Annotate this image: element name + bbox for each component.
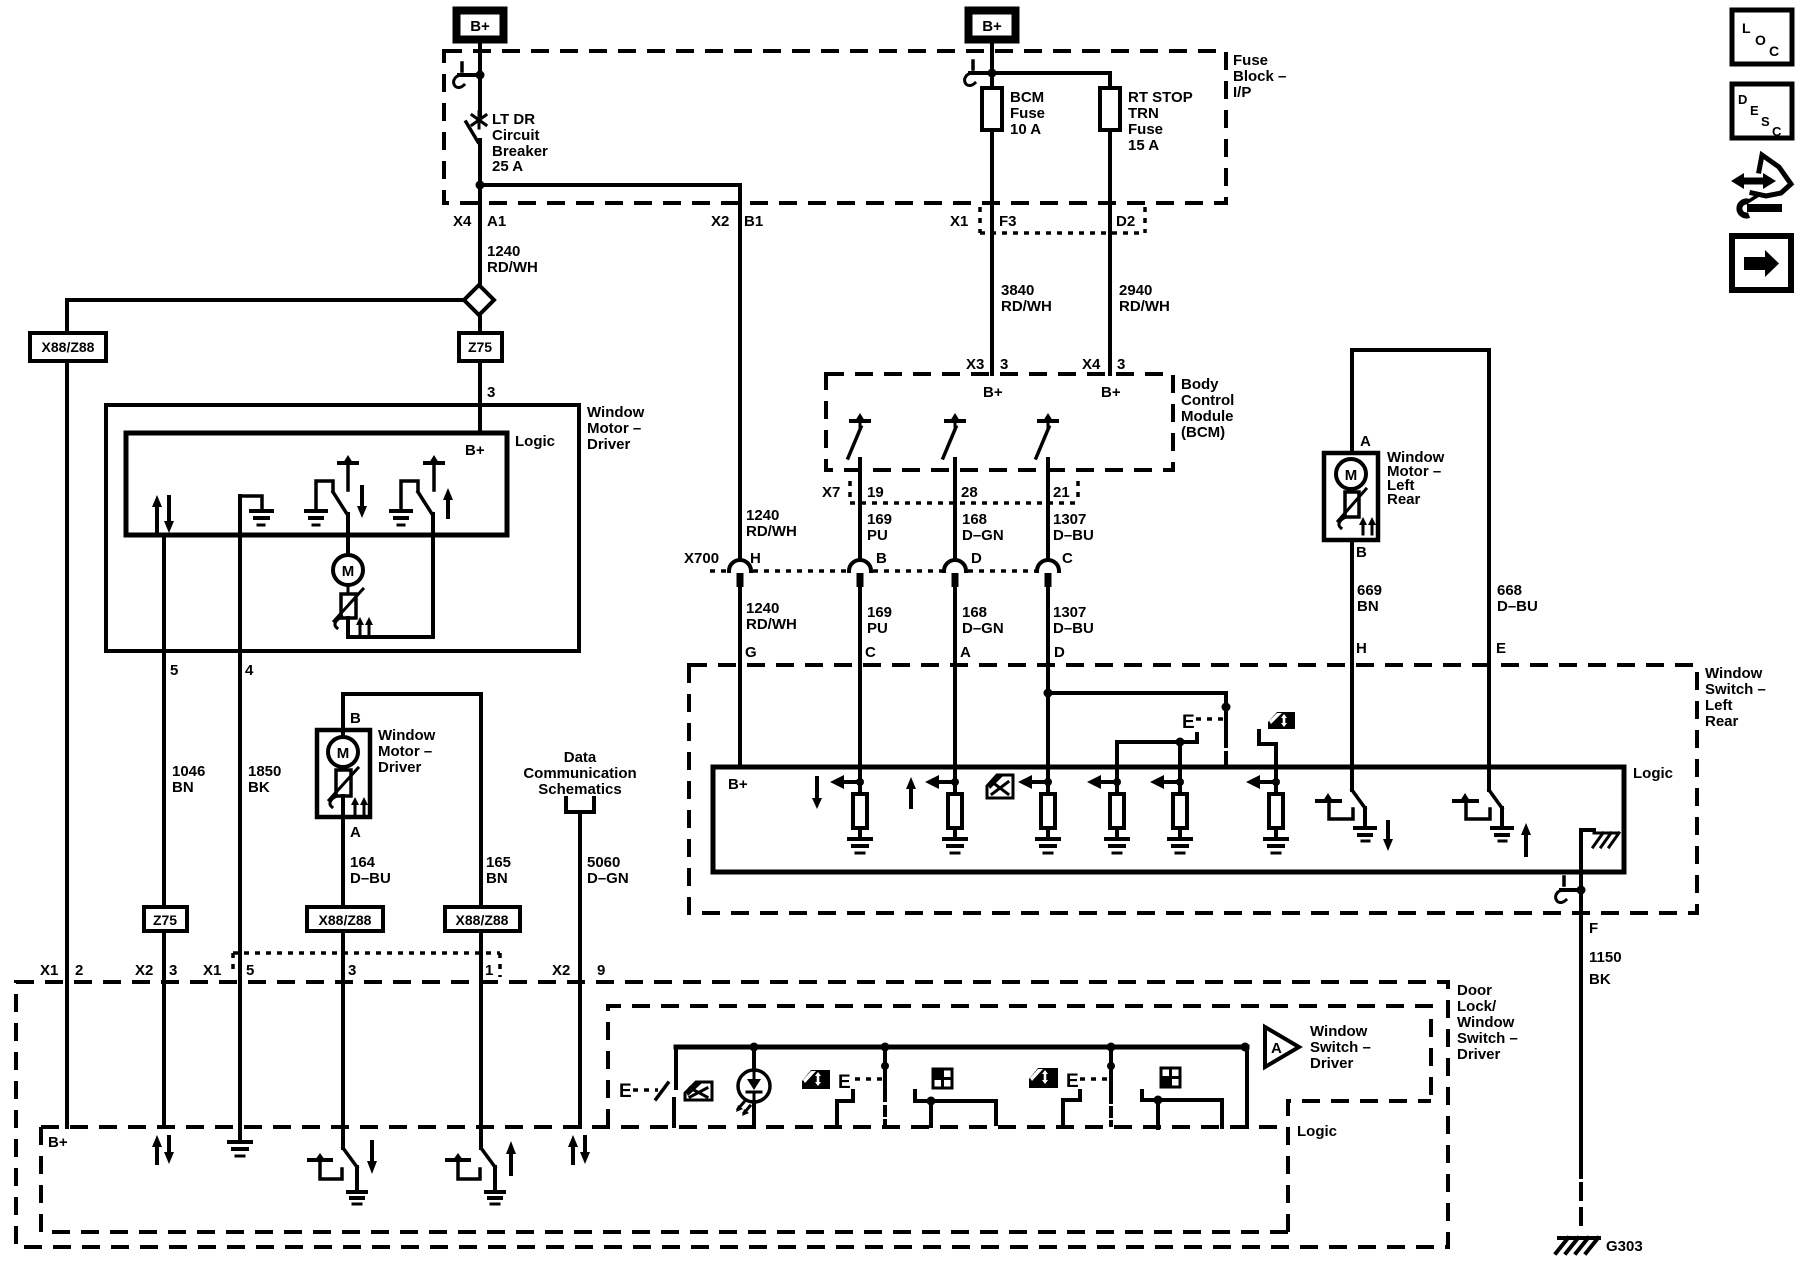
terminal hook at CB1 — [454, 63, 485, 88]
up/down arrows (door pin9) — [568, 1135, 590, 1164]
svg-text:H: H — [750, 550, 761, 567]
bus wire (switch row) — [676, 1045, 1247, 1050]
wire bus end down — [1241, 1043, 1250, 1128]
svg-text:Logic: Logic — [1297, 1123, 1337, 1140]
svg-text:Window: Window — [1457, 1014, 1515, 1031]
switch SW-up (door) — [481, 1148, 504, 1204]
up-up arrows M2 — [351, 797, 368, 814]
svg-text:RD/WH: RD/WH — [1001, 298, 1052, 315]
window motor driver M2 box — [317, 730, 370, 817]
actuator icon (door down) — [309, 1153, 342, 1179]
svg-text:B1: B1 — [744, 213, 763, 230]
svg-text:BK: BK — [248, 779, 270, 796]
pin labels H E — [1356, 640, 1506, 657]
junction node A1 — [476, 181, 485, 190]
switch SW-down (U1) — [306, 455, 357, 525]
label Window Motor Driver (M2) — [378, 727, 436, 776]
label Window Switch Left Rear — [1705, 665, 1766, 730]
X700 connector arc B — [849, 560, 871, 587]
E3 linkage dashed wire — [1107, 1043, 1116, 1126]
svg-text:X7: X7 — [822, 484, 840, 501]
svg-text:D–BU: D–BU — [350, 870, 391, 887]
switch contact L3 — [1063, 1091, 1080, 1127]
wire label 164 D-BU — [350, 854, 391, 887]
svg-text:Rear: Rear — [1387, 491, 1421, 508]
fuse BCM Fuse 10A — [982, 88, 1002, 130]
svg-text:669: 669 — [1357, 582, 1382, 599]
svg-text:E: E — [1496, 640, 1506, 657]
connector X1 dotted (door) — [233, 953, 500, 977]
svg-text:Motor –: Motor – — [587, 420, 641, 437]
down arrow (U1) — [357, 487, 367, 518]
label Window Motor Left Rear — [1387, 449, 1445, 508]
label E with dashes (E1) — [619, 1081, 658, 1102]
pin labels X4 A1 X2 B1 — [453, 213, 763, 230]
label BCM Fuse 10 A — [1010, 89, 1045, 138]
svg-text:28: 28 — [961, 484, 978, 501]
svg-text:Window: Window — [587, 404, 645, 421]
svg-text:3: 3 — [348, 962, 356, 979]
wire label 5060 D-GN — [587, 854, 629, 887]
svg-text:Left: Left — [1705, 697, 1733, 714]
label LT DR Circuit Breaker 25 A — [492, 111, 548, 175]
wire label 1150 BK — [1589, 949, 1622, 988]
splice diamond S1 — [464, 285, 494, 315]
node E branch junction — [1044, 689, 1053, 698]
svg-text:B+: B+ — [48, 1134, 68, 1151]
svg-text:B+: B+ — [983, 384, 1003, 401]
svg-text:X1: X1 — [40, 962, 58, 979]
logic dashed partition — [41, 1125, 1283, 1129]
up-up arrows M3 — [1359, 517, 1376, 534]
window switch left rear dashed box — [689, 665, 1697, 913]
wire CB1 output — [478, 140, 482, 285]
svg-text:X2: X2 — [135, 962, 153, 979]
svg-text:G: G — [745, 644, 757, 661]
logic box U2 — [713, 767, 1624, 872]
resistor R4 branch — [1087, 775, 1128, 853]
motor M3 — [1336, 459, 1366, 489]
power feed B+ (left) — [457, 11, 504, 40]
window pane icon 1 — [933, 1069, 952, 1088]
svg-text:1240: 1240 — [746, 507, 779, 524]
svg-text:10 A: 10 A — [1010, 121, 1041, 138]
svg-text:Fuse: Fuse — [1233, 52, 1268, 69]
svg-text:Body: Body — [1181, 376, 1219, 393]
wire label 168 D-GN (lower) — [962, 604, 1004, 637]
wire label 668 D-BU — [1497, 582, 1538, 615]
svg-text:BK: BK — [1589, 971, 1611, 988]
pin labels 5 4 — [170, 662, 254, 679]
svg-text:3: 3 — [169, 962, 177, 979]
actuator icon (door up) — [447, 1153, 480, 1179]
connector X88/Z88 (motor2 B) — [445, 907, 520, 931]
wire fuse F3 down — [990, 130, 994, 374]
wire switch to motor M1 — [346, 514, 350, 556]
svg-text:164: 164 — [350, 854, 376, 871]
connector X1 dotted (fuse block) — [980, 207, 1145, 233]
svg-text:169: 169 — [867, 511, 892, 528]
svg-text:M: M — [1345, 467, 1358, 484]
svg-text:168: 168 — [962, 604, 987, 621]
up arrow (SW-E) — [1521, 823, 1531, 855]
svg-text:Switch –: Switch – — [1457, 1030, 1518, 1047]
svg-text:X3: X3 — [966, 356, 984, 373]
wire B+ to fuses — [990, 42, 994, 88]
up arrow (door) — [506, 1141, 516, 1174]
pin letters H B D C — [750, 550, 1073, 567]
svg-text:I/P: I/P — [1233, 84, 1251, 101]
svg-text:3: 3 — [1000, 356, 1008, 373]
wire label 169 PU (lower) — [867, 604, 892, 637]
window motor left rear loop wire — [1352, 350, 1489, 767]
svg-text:B+: B+ — [982, 18, 1002, 35]
svg-text:D–BU: D–BU — [1053, 527, 1094, 544]
svg-text:Circuit: Circuit — [492, 127, 540, 144]
svg-text:F: F — [1589, 920, 1598, 937]
wire BCM pin 28 — [953, 459, 957, 794]
svg-text:M: M — [337, 745, 350, 762]
svg-text:C: C — [1772, 124, 1782, 139]
motor M1 — [333, 555, 363, 585]
svg-text:TRN: TRN — [1128, 105, 1159, 122]
wire motor2 B loop — [343, 694, 481, 1148]
label Body Control Module (BCM) — [1181, 376, 1234, 441]
svg-text:RD/WH: RD/WH — [746, 616, 797, 633]
window icon lockout (row) — [685, 1082, 712, 1100]
icon forward arrow box — [1732, 236, 1791, 290]
svg-text:3: 3 — [1117, 356, 1125, 373]
svg-text:5: 5 — [170, 662, 178, 679]
svg-text:A1: A1 — [487, 213, 506, 230]
pin labels X1 F3 D2 — [950, 213, 1135, 230]
svg-text:RT STOP: RT STOP — [1128, 89, 1193, 106]
svg-text:Z75: Z75 — [468, 339, 492, 355]
svg-text:B+: B+ — [465, 442, 485, 459]
pin labels X7 19 28 21 — [822, 484, 1070, 501]
wire motor3 B down — [1350, 540, 1354, 767]
svg-text:4: 4 — [245, 662, 254, 679]
thermal protector M2 — [329, 768, 358, 807]
logic dashed box left — [41, 1127, 1288, 1232]
logic dashed box right — [1288, 1101, 1431, 1232]
switch SW-up (U1) — [391, 455, 443, 525]
svg-text:D–BU: D–BU — [1053, 620, 1094, 637]
label Data Communication Schematics — [523, 749, 636, 798]
svg-text:1307: 1307 — [1053, 604, 1086, 621]
wire BCM pin 21 — [1046, 459, 1050, 794]
svg-text:X88/Z88: X88/Z88 — [319, 912, 372, 928]
svg-text:168: 168 — [962, 511, 987, 528]
svg-text:19: 19 — [867, 484, 884, 501]
svg-text:BCM: BCM — [1010, 89, 1044, 106]
up arrow (U2) — [906, 777, 916, 807]
up/down arrows (motor control) — [152, 495, 174, 533]
switch SW-E (U2) — [1489, 767, 1512, 841]
switch contact L1 — [837, 1091, 853, 1126]
resistor R3 branch — [1018, 775, 1059, 853]
svg-text:E: E — [1182, 712, 1195, 733]
svg-text:Logic: Logic — [515, 433, 555, 450]
svg-text:Communication: Communication — [523, 765, 636, 782]
svg-text:D: D — [1054, 644, 1065, 661]
svg-text:D–GN: D–GN — [962, 527, 1004, 544]
wire serial data down — [578, 812, 582, 1127]
svg-text:X88/Z88: X88/Z88 — [456, 912, 509, 928]
svg-text:E: E — [1750, 103, 1759, 118]
svg-text:X4: X4 — [1082, 356, 1101, 373]
svg-text:2: 2 — [75, 962, 83, 979]
switch SW-down (door) — [343, 1148, 366, 1204]
svg-text:A: A — [960, 644, 971, 661]
svg-text:D–BU: D–BU — [1497, 598, 1538, 615]
svg-text:PU: PU — [867, 620, 888, 637]
svg-text:RD/WH: RD/WH — [1119, 298, 1170, 315]
window motor driver module box — [106, 405, 579, 651]
svg-text:B: B — [876, 550, 887, 567]
switch SW-E1 (lock) — [656, 1047, 676, 1126]
up-up arrows M1 — [356, 617, 373, 634]
svg-text:1850: 1850 — [248, 763, 281, 780]
svg-text:5060: 5060 — [587, 854, 620, 871]
terminal hook at fuse feed — [965, 61, 997, 86]
window motor left rear box — [1324, 453, 1378, 540]
icon schematic arrows — [1731, 155, 1791, 216]
node on E branch — [1222, 703, 1231, 712]
svg-text:Logic: Logic — [1633, 765, 1673, 782]
down arrow (SW-H) — [1383, 822, 1393, 851]
svg-text:L: L — [1742, 20, 1751, 36]
wire motor2 A down — [341, 796, 345, 1148]
power feed B+ (right) — [969, 11, 1016, 40]
icon DESC box — [1732, 84, 1792, 139]
svg-text:X1: X1 — [950, 213, 968, 230]
wire dashed to G303 — [1579, 1184, 1583, 1228]
wire label 1046 BN — [172, 763, 205, 796]
fuse RT STOP TRN 15A — [1100, 88, 1120, 130]
svg-text:Fuse: Fuse — [1128, 121, 1163, 138]
svg-text:C: C — [865, 644, 876, 661]
connector X88/Z88 (top left) — [30, 333, 106, 361]
window icon up/down (row 2) — [1029, 1068, 1058, 1088]
door lock / window switch driver dashed box — [16, 982, 1448, 1247]
wire label 1307 D-BU (lower) — [1053, 604, 1094, 637]
svg-text:Lock/: Lock/ — [1457, 998, 1497, 1015]
wire to pin B1 — [480, 183, 740, 187]
svg-text:Switch –: Switch – — [1705, 681, 1766, 698]
svg-text:(BCM): (BCM) — [1181, 424, 1225, 441]
svg-text:LT DR: LT DR — [492, 111, 535, 128]
svg-text:Data: Data — [564, 749, 597, 766]
svg-text:Window: Window — [1705, 665, 1763, 682]
svg-text:D2: D2 — [1116, 213, 1135, 230]
switch contact L4 — [1142, 1091, 1222, 1128]
svg-text:X2: X2 — [552, 962, 570, 979]
svg-text:Block –: Block – — [1233, 68, 1286, 85]
wire motor return loop — [348, 514, 433, 637]
thermal protector M3 — [1338, 489, 1366, 528]
wire label 168 D-GN (upper) — [962, 511, 1004, 544]
wire B1 down to X700 — [738, 185, 742, 560]
svg-text:S: S — [1761, 114, 1770, 129]
svg-text:RD/WH: RD/WH — [487, 259, 538, 276]
thermal protector M1 — [334, 585, 363, 628]
wire switch common horizontal — [1117, 734, 1197, 747]
svg-text:E: E — [619, 1081, 632, 1102]
window pane icon 2 — [1161, 1068, 1180, 1087]
connector X7 dotted — [850, 481, 1078, 503]
resistor R6 branch — [1246, 775, 1287, 853]
X700 connector arc D — [944, 560, 966, 587]
wire B1 continues to switch — [738, 588, 742, 767]
label Door Lock Window Switch Driver — [1457, 982, 1518, 1063]
chassis ground (U2 internal) — [1581, 830, 1619, 872]
connector X88/Z88 (motor2 A) — [307, 907, 383, 931]
switch SW-H (U2) — [1352, 767, 1375, 841]
E linkage dash — [1224, 753, 1228, 763]
ground (door pin5) — [229, 1142, 251, 1156]
svg-text:Driver: Driver — [1310, 1055, 1354, 1072]
svg-text:D: D — [971, 550, 982, 567]
down arrow (door) — [367, 1142, 377, 1174]
Body Control Module (BCM) dashed box — [826, 374, 1173, 470]
data link bracket — [566, 798, 594, 812]
svg-text:5: 5 — [246, 962, 254, 979]
wire fuse D2 down — [1108, 130, 1112, 374]
svg-text:D–GN: D–GN — [587, 870, 629, 887]
wire label 1240 RD/WH (lower) — [746, 600, 797, 633]
resistor R1 branch — [830, 775, 871, 853]
BCM driver Q1 — [848, 413, 869, 458]
svg-text:B+: B+ — [728, 776, 748, 793]
wire label 3840 RD/WH — [1001, 282, 1052, 315]
svg-text:PU: PU — [867, 527, 888, 544]
wire window icon to branch 6 — [1259, 731, 1276, 794]
svg-text:1240: 1240 — [487, 243, 520, 260]
window icon up/down (left rear) — [1268, 712, 1295, 729]
svg-text:9: 9 — [597, 962, 605, 979]
wire label 1240 RD/WH — [487, 243, 538, 276]
svg-text:C: C — [1062, 550, 1073, 567]
pin letters G C A D — [745, 644, 1065, 661]
svg-text:1240: 1240 — [746, 600, 779, 617]
connector Z75 (top) — [459, 333, 502, 361]
wire label 169 PU (upper) — [867, 511, 892, 544]
wire BCM pin 19 — [858, 459, 862, 794]
wire splice down to Z75 — [478, 315, 482, 433]
svg-text:1150: 1150 — [1589, 949, 1622, 966]
wire label 165 BN — [486, 854, 511, 887]
label RT STOP TRN Fuse 15 A — [1128, 89, 1193, 154]
actuator icon (SW-H) — [1317, 793, 1353, 819]
wire pin 5 down — [162, 535, 166, 1127]
svg-text:165: 165 — [486, 854, 511, 871]
svg-text:2940: 2940 — [1119, 282, 1152, 299]
svg-text:15 A: 15 A — [1128, 137, 1159, 154]
svg-text:A: A — [1271, 1040, 1282, 1057]
svg-text:X88/Z88: X88/Z88 — [42, 339, 95, 355]
svg-text:B+: B+ — [1101, 384, 1121, 401]
svg-text:169: 169 — [867, 604, 892, 621]
resistor R5 branch — [1150, 775, 1191, 853]
X700 connector arc C — [1037, 560, 1059, 587]
svg-text:BN: BN — [486, 870, 508, 887]
icon LOC box — [1732, 10, 1792, 64]
terminal hook at F — [1556, 877, 1586, 903]
pin labels X3 3 X4 3 — [966, 356, 1125, 373]
svg-text:Rear: Rear — [1705, 713, 1739, 730]
wire E branch horizontal — [1048, 691, 1226, 695]
BCM driver Q3 — [1036, 413, 1057, 458]
wire label 1850 BK — [248, 763, 281, 796]
label Window Switch Driver — [1310, 1023, 1371, 1072]
circuit breaker LT DR 25A — [466, 112, 486, 142]
buffer A triangle — [1265, 1027, 1299, 1067]
ground (logic U1 pin4) — [240, 496, 272, 525]
label E with dashes (E3) — [1066, 1071, 1108, 1092]
svg-text:Door: Door — [1457, 982, 1492, 999]
X700 connector arc H — [729, 560, 751, 587]
svg-text:3840: 3840 — [1001, 282, 1034, 299]
ground G303 — [1556, 1238, 1599, 1253]
actuator icon (SW-E) — [1454, 793, 1490, 819]
fuse block I/P dashed box — [444, 51, 1226, 203]
wire splice to X88/Z88 — [67, 300, 464, 1127]
window icon up/down (row 1) — [802, 1070, 830, 1089]
wire B+ to circuit breaker CB1 — [478, 42, 482, 117]
up arrow (U1) — [443, 488, 453, 517]
label Window Motor Driver (top) — [587, 404, 645, 453]
up/down arrows (door pin3) — [152, 1135, 174, 1164]
wire branch 5 down — [1178, 742, 1182, 794]
label E with dashes — [1182, 712, 1224, 733]
switch contact L2 — [915, 1091, 996, 1126]
svg-text:M: M — [342, 563, 355, 580]
wire label 669 BN — [1357, 582, 1382, 615]
svg-text:F3: F3 — [999, 213, 1017, 230]
svg-text:A: A — [1360, 433, 1371, 450]
label Fuse Block I/P — [1233, 52, 1286, 101]
svg-text:25 A: 25 A — [492, 158, 523, 175]
svg-text:Window: Window — [378, 727, 436, 744]
wire fuse jumper — [992, 73, 1110, 88]
wire branch 4 down — [1115, 742, 1119, 794]
svg-text:BN: BN — [172, 779, 194, 796]
wire pin 4 down — [238, 496, 242, 1140]
svg-text:X4: X4 — [453, 213, 472, 230]
svg-text:BN: BN — [1357, 598, 1379, 615]
switch assembly dashed box — [608, 1006, 1431, 1127]
wire label 1307 D-BU (upper) — [1053, 511, 1094, 544]
down arrow (U2) — [812, 778, 822, 809]
connector Z75 (lower) — [144, 907, 187, 931]
svg-text:B: B — [350, 710, 361, 727]
svg-text:1: 1 — [485, 962, 493, 979]
wire label 2940 RD/WH — [1119, 282, 1170, 315]
X700 dotted line — [710, 569, 1035, 573]
svg-text:X700: X700 — [684, 550, 719, 567]
svg-text:RD/WH: RD/WH — [746, 523, 797, 540]
svg-text:E: E — [838, 1072, 851, 1093]
svg-text:668: 668 — [1497, 582, 1522, 599]
resistor R2 branch — [925, 775, 966, 853]
svg-text:3: 3 — [487, 384, 495, 401]
svg-text:1307: 1307 — [1053, 511, 1086, 528]
svg-text:Schematics: Schematics — [538, 781, 621, 798]
svg-text:E: E — [1066, 1071, 1079, 1092]
svg-text:A: A — [350, 824, 361, 841]
BCM driver Q2 — [943, 413, 964, 458]
